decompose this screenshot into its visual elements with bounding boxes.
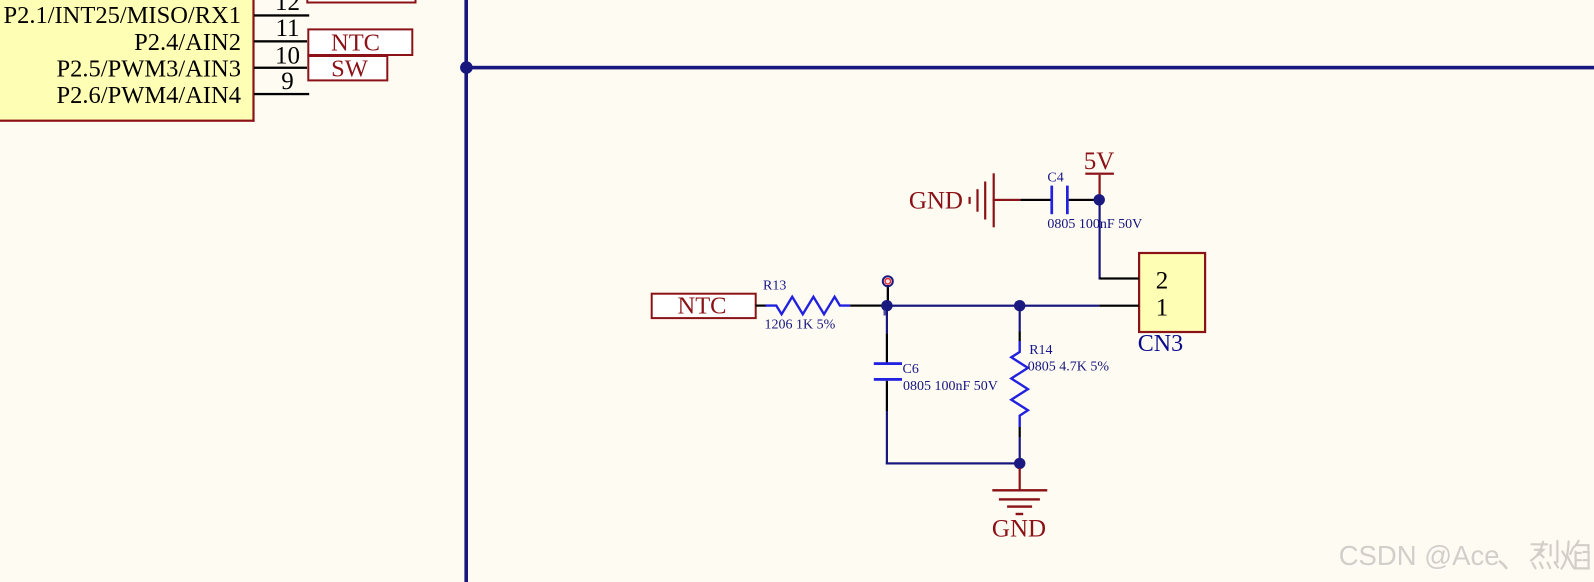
svg-text:0805 100nF 50V: 0805 100nF 50V <box>1047 217 1142 232</box>
watermark <box>1339 540 1589 572</box>
capacitor C6 <box>874 308 902 464</box>
svg-text:10: 10 <box>275 42 300 69</box>
wire node B to CN3 pin 1 <box>1020 305 1100 307</box>
svg-text:0805 4.7K 5%: 0805 4.7K 5% <box>1028 360 1110 375</box>
IC U1 body (partial, top-left) <box>0 0 255 122</box>
svg-text:GND: GND <box>992 516 1046 543</box>
svg-text:P2.6/PWM4/AIN4: P2.6/PWM4/AIN4 <box>57 82 241 109</box>
wire node A to node B <box>887 305 1020 307</box>
pin 12 wire <box>254 14 309 16</box>
net label box (clipped at top) <box>307 0 415 3</box>
svg-text:1206 1K 5%: 1206 1K 5% <box>765 318 836 333</box>
svg-text:NTC: NTC <box>331 29 380 56</box>
junction node B <box>1014 300 1025 311</box>
glyph yan (焰) <box>1562 552 1565 557</box>
svg-text:12: 12 <box>275 0 300 16</box>
junction at bus corner <box>460 61 473 74</box>
tiny purple mark <box>884 311 887 316</box>
svg-text:P2.4/AIN2: P2.4/AIN2 <box>134 29 241 56</box>
svg-text:SW: SW <box>331 55 369 82</box>
wire GND to C4 <box>1020 199 1050 201</box>
svg-text:GND: GND <box>909 188 963 215</box>
wire bottom (C6 to R14 bottom) <box>886 462 1020 464</box>
ground GND (bottom) <box>992 468 1047 543</box>
svg-text:CSDN @Ace: CSDN @Ace <box>1339 540 1500 571</box>
power ground GND (left, battery-style) <box>909 173 1020 227</box>
wire 5V node down to CN3 pin 2 <box>1099 200 1101 280</box>
svg-text:C6: C6 <box>903 362 919 377</box>
glyph lie (烈) <box>1532 543 1548 545</box>
svg-text:P2.1/INT25/MISO/RX1: P2.1/INT25/MISO/RX1 <box>3 2 241 29</box>
junction node A <box>881 300 892 311</box>
svg-text:C4: C4 <box>1047 171 1063 186</box>
svg-text:P2.5/PWM3/AIN3: P2.5/PWM3/AIN3 <box>57 56 241 83</box>
svg-text:1: 1 <box>1156 294 1169 321</box>
svg-text:NTC: NTC <box>678 293 727 320</box>
pin 10 wire <box>254 67 307 69</box>
pin 9 wire <box>254 93 309 95</box>
svg-text:R13: R13 <box>763 278 786 293</box>
junction bottom <box>1014 458 1025 469</box>
bus wire vertical <box>464 0 468 582</box>
power 5V <box>1084 148 1115 195</box>
test point marker above node A <box>883 276 893 301</box>
svg-text:11: 11 <box>275 15 299 42</box>
capacitor C4 <box>1050 186 1093 215</box>
junction 5V / C4 / CN3 <box>1094 194 1105 205</box>
connector CN3 <box>1099 253 1205 332</box>
bus wire horizontal <box>466 66 1594 70</box>
net label SW (pin 10) <box>308 55 387 82</box>
pin 11 wire <box>254 40 307 42</box>
resistor R14 <box>1011 306 1028 464</box>
svg-text:CN3: CN3 <box>1138 331 1183 357</box>
ideographic comma <box>1500 562 1506 569</box>
svg-text:5V: 5V <box>1084 148 1115 175</box>
net label NTC (pin 11) <box>308 29 412 56</box>
svg-text:0805 100nF 50V: 0805 100nF 50V <box>903 379 998 394</box>
svg-text:9: 9 <box>281 68 294 95</box>
svg-text:R14: R14 <box>1029 343 1052 358</box>
net label NTC (input to R13) <box>652 293 756 320</box>
svg-text:2: 2 <box>1156 267 1169 294</box>
resistor R13 <box>756 297 882 314</box>
